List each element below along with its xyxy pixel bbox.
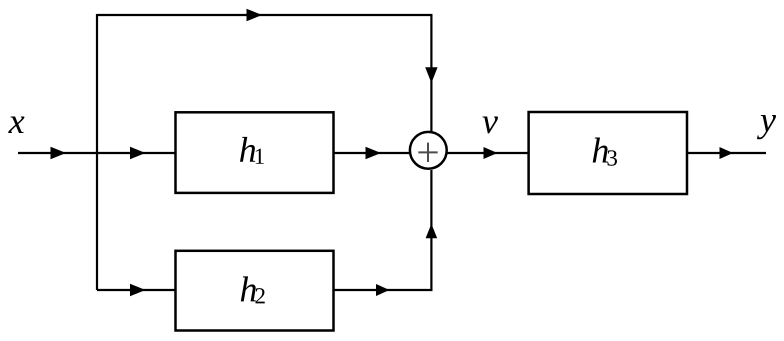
summing junction: circle with plus	[410, 132, 447, 169]
arrowhead on summer output wire	[484, 147, 498, 159]
wire: bottom branch line to block h2	[97, 289, 176, 291]
wire: top feed-forward line from branch node to summer column	[97, 14, 432, 16]
arrowhead pointing up into summer	[426, 224, 438, 239]
block h3	[529, 112, 687, 194]
block h2	[176, 251, 334, 331]
arrowhead on h1 output wire	[366, 147, 382, 160]
wire: block h1 output to summer	[334, 152, 410, 154]
wire: input line x to block h1	[18, 152, 176, 154]
node v: summer output label	[482, 116, 497, 133]
arrowhead on h2 output wire	[376, 284, 390, 296]
wire: vertical rise from bottom line into summer	[430, 170, 432, 291]
block h1	[176, 112, 334, 193]
arrowhead on output wire	[720, 147, 734, 159]
arrowhead on wire entering block h2	[130, 284, 146, 297]
arrowhead on input wire before branch node	[51, 147, 67, 160]
wire: vertical drop from top line into summer	[430, 14, 432, 131]
wire: summer output to block h3	[448, 152, 530, 154]
arrowhead on wire entering block h1	[130, 147, 146, 160]
arrowhead on top feed-forward wire	[247, 9, 263, 22]
arrowhead pointing down into summer	[425, 67, 437, 83]
wire: block h3 output to y	[687, 152, 766, 154]
wire: block h2 output to summer column	[334, 289, 433, 291]
node y: output label	[757, 115, 776, 139]
node x: input label	[8, 116, 24, 133]
wire: left vertical branch line	[96, 14, 98, 290]
